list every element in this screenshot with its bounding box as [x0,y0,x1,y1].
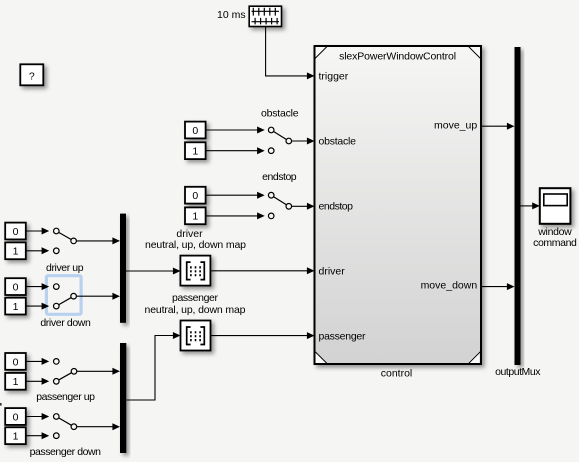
svg-text:1: 1 [13,246,19,258]
svg-text:0: 0 [13,356,19,368]
wire: const 1 to passenger down switch [26,432,49,439]
wire: const 0 to obstacle switch [206,127,265,134]
chart corner fold bottom-left [315,351,328,364]
chart block: slexPowerWindowControl [315,46,482,364]
manual switch driver up [54,228,77,253]
wire: const 0 to driver down switch [26,283,49,290]
wire: driver down switch to driver mux [76,293,120,300]
wire: const 1 to driver down switch [26,303,49,310]
svg-text:endstop: endstop [262,171,297,183]
svg-text:command: command [533,237,577,249]
label: driver neutral, up, down map [145,228,246,251]
svg-text:0: 0 [13,411,19,423]
wire: move_down from control to outputMux [481,283,515,290]
svg-text:move_up: move_up [434,119,477,131]
wire: driver map to control driver port [210,267,314,274]
constant 1 (driver up) [5,242,26,259]
svg-text:obstacle: obstacle [319,135,357,147]
svg-text:outputMux: outputMux [495,366,541,378]
constant 0 (passenger up) [5,353,26,370]
constant 1 (driver down) [5,298,26,315]
svg-text:neutral, up, down map: neutral, up, down map [145,304,246,316]
svg-text:neutral, up, down map: neutral, up, down map [145,239,246,251]
svg-text:obstacle: obstacle [261,108,299,120]
block: sample time clock (10 ms) [249,6,281,26]
constant 1 (endstop) [185,207,206,224]
constant 0 (passenger down) [5,408,26,425]
constant 0 (endstop) [185,187,206,204]
svg-text:trigger: trigger [319,70,349,82]
wire: passenger mux to passenger map [127,332,181,400]
svg-text:0: 0 [13,226,19,238]
wire: const 1 to obstacle switch [206,147,265,154]
wire: move_up from control to outputMux [481,123,515,130]
svg-text:?: ? [29,70,35,82]
block: driver map (direct lookup table) [180,256,210,286]
constant 0 (driver up) [5,223,26,240]
manual switch obstacle [268,127,291,153]
manual switch driver down [54,284,77,309]
block: passenger map (direct lookup table) [181,321,211,351]
svg-text:1: 1 [13,301,19,313]
svg-text:driver up: driver up [46,262,84,274]
constant 1 (passenger down) [5,427,26,444]
svg-text:endstop: endstop [319,201,354,213]
svg-text:passenger: passenger [319,330,367,342]
chart corner fold top-left [315,46,328,59]
mux: passenger mux bar [120,343,126,453]
selection highlight box around driver down switch [46,276,81,315]
wire: endstop switch to control endstop port [291,203,314,210]
wire: passenger down switch to passenger mux [77,423,121,430]
wire: const 0 to driver up switch [26,228,49,235]
wire: const 1 to endstop switch [206,212,265,219]
svg-text:1: 1 [13,376,19,388]
wire: passenger map to control passenger port [211,332,315,339]
constant 1 (obstacle) [185,142,206,159]
svg-text:passenger down: passenger down [30,446,102,458]
wire: const 1 to driver up switch [26,247,49,254]
block: window command viewer [540,188,571,224]
svg-text:move_down: move_down [421,279,478,291]
label: window command [533,226,577,249]
wire: driver up switch to driver mux [76,237,120,244]
wire: const 0 to passenger down switch [26,413,49,420]
manual switch passenger down [54,414,77,439]
svg-text:0: 0 [192,125,198,137]
mux: driver mux bar [120,214,126,323]
manual switch passenger up [54,359,77,385]
wire: driver mux to driver map [126,268,181,275]
wire: const 0 to passenger up switch [26,358,49,365]
svg-text:0: 0 [13,282,19,294]
svg-text:1: 1 [192,146,198,158]
svg-text:10 ms: 10 ms [217,9,246,21]
mux: outputMux bar [515,47,521,365]
constant 0 (obstacle) [185,122,206,139]
chart corner fold top-right [468,46,482,59]
svg-text:control: control [381,368,413,380]
wire: const 0 to endstop switch [206,192,265,199]
svg-text:passenger up: passenger up [36,391,95,403]
wire: const 1 to passenger up switch [26,378,49,385]
svg-text:1: 1 [13,431,19,443]
label: passenger neutral, up, down map [145,292,246,316]
svg-text:driver down: driver down [40,317,91,329]
wire: clock to trigger port [266,27,315,80]
clipped element at canvas left edge [0,403,2,406]
svg-text:0: 0 [192,190,198,202]
svg-text:slexPowerWindowControl: slexPowerWindowControl [339,50,456,62]
wire: passenger up switch to passenger mux [77,368,120,375]
block: help (?) [20,64,43,85]
manual switch endstop [268,192,291,218]
wire: obstacle switch to control obstacle port [291,138,314,145]
svg-text:1: 1 [192,211,198,223]
chart corner fold bottom-right [468,351,482,364]
svg-text:passenger: passenger [172,292,219,304]
constant 0 (driver down) [5,278,26,295]
svg-text:driver: driver [319,265,346,277]
wire: outputMux to window command [521,202,540,209]
constant 1 (passenger up) [5,373,26,390]
